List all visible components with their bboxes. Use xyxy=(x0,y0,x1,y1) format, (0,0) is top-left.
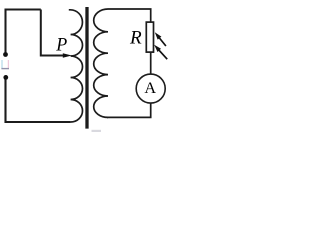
svg-text:P: P xyxy=(55,36,67,56)
svg-text:A: A xyxy=(144,79,156,97)
svg-text:R: R xyxy=(129,29,142,49)
